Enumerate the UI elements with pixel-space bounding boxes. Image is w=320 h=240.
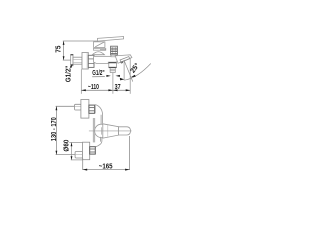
arrows 37 [113, 89, 118, 91]
dimension dia60 arrows [71, 143, 73, 147]
lever pivot block [94, 42, 105, 48]
bottom escutcheon [83, 142, 90, 160]
extension line left (escutcheon face) [80, 69, 82, 94]
dimension dia60 lines [69, 142, 82, 160]
back plate [93, 118, 94, 142]
arrows ~110 [81, 89, 86, 91]
svg-text:G1/2": G1/2" [92, 70, 104, 77]
top union centerline through square [75, 105, 81, 107]
handle grip [119, 127, 131, 135]
top union nut [89, 105, 95, 113]
top union pipe square [75, 104, 81, 110]
body block [94, 56, 119, 63]
dimension ~165 arrows [83, 169, 88, 171]
spout aerator band [120, 57, 130, 64]
G1/2 middle leader underline [92, 76, 105, 78]
wall union pipe flange [71, 54, 74, 65]
lever handle [98, 37, 124, 42]
G1/2 thread arrows [106, 75, 110, 77]
svg-text:37: 37 [115, 84, 121, 91]
top body shoulder [95, 105, 102, 125]
ribbed cap cylinder [111, 46, 118, 57]
angle arc arrowheads [120, 78, 124, 81]
svg-text:75: 75 [56, 45, 63, 52]
shower outlet nut [109, 62, 117, 67]
svg-text:130 - 170: 130 - 170 [51, 117, 58, 141]
G1/2 left leader arrow [70, 66, 72, 69]
extension line right (spout tip) [129, 58, 131, 94]
cartridge dome circle [95, 124, 108, 137]
svg-text:~165: ~165 [99, 164, 113, 171]
dimension 75 lines [63, 41, 98, 60]
outlet axis extension line [112, 73, 114, 94]
top escutcheon [81, 100, 89, 119]
angle arc [124, 64, 151, 81]
cartridge dome [92, 52, 104, 55]
svg-text:Ø60: Ø60 [64, 140, 71, 152]
centerline [89, 130, 132, 132]
dimension 75 arrows [63, 41, 65, 45]
center tick [100, 127, 102, 134]
shower outlet thread [110, 68, 115, 73]
wall union pipe [73, 57, 82, 64]
bottom body shoulder [95, 137, 102, 154]
dimension 130-170 arrows [56, 106, 58, 110]
lever base plate [93, 48, 105, 50]
handle neck [103, 124, 119, 138]
angle 25 deg slanted line [124, 60, 133, 82]
dimension 130-170 lines [56, 106, 83, 154]
dimension line ~110 / 37 [81, 89, 130, 91]
dimension ~165 lines [83, 136, 130, 170]
svg-text:~110: ~110 [88, 84, 99, 91]
connection nut (side) [88, 55, 94, 67]
bottom union pipe square [75, 152, 82, 159]
svg-text:G1/2": G1/2" [66, 66, 73, 83]
angle vertical reference line [123, 61, 125, 81]
bottom union centerline through square [75, 154, 82, 156]
spout [115, 55, 132, 63]
wall escutcheon (side) [82, 53, 88, 70]
pipe centerline [73, 58, 82, 60]
bottom union nut [90, 147, 96, 154]
